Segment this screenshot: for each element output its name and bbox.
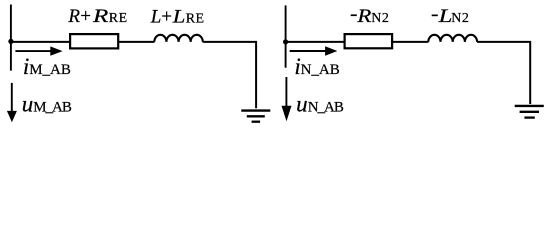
svg-text:N2: N2 (371, 11, 389, 26)
wire: resistor to inductor (right circuit) (392, 41, 428, 43)
current arrow iN_AB (290, 46, 338, 55)
wire: node A to resistor (right circuit) (285, 41, 345, 43)
svg-text:N_AB: N_AB (308, 100, 344, 116)
label uN_AB (296, 92, 344, 117)
svg-text:L: L (150, 6, 162, 27)
svg-text:u: u (22, 92, 34, 117)
wire: left port vertical (node A, right circuit) (285, 5, 287, 67)
svg-text:L: L (172, 6, 186, 27)
label R+RRE (67, 6, 127, 27)
junction dot (right circuit input node) (283, 39, 288, 44)
svg-text:+: + (80, 6, 91, 27)
inductor -LN2 coil (428, 35, 477, 42)
wire: left port vertical (node A, left circuit) (10, 5, 12, 71)
label L+LRE (150, 6, 205, 27)
svg-text:N_AB: N_AB (301, 62, 340, 78)
current arrow iM_AB (15, 46, 62, 55)
ground (left circuit) (241, 111, 270, 122)
svg-text:RE: RE (109, 11, 128, 26)
svg-text:R: R (356, 6, 372, 27)
wire: inductor to ground corner (left circuit) (203, 42, 256, 108)
ground (right circuit) (515, 106, 544, 118)
svg-text:M_AB: M_AB (33, 100, 72, 116)
wire: inductor to ground corner (right circuit) (477, 42, 530, 104)
voltage arrow uN_AB (282, 77, 292, 121)
resistor -RN2 body (345, 34, 393, 48)
svg-text:R: R (92, 6, 109, 27)
inductor L+LRE coil (154, 35, 202, 42)
svg-text:N2: N2 (451, 11, 469, 26)
wire: resistor to inductor (left circuit) (118, 41, 154, 43)
svg-text:L: L (437, 6, 452, 27)
label -RN2 (351, 6, 390, 27)
svg-text:M_AB: M_AB (29, 62, 71, 78)
label -LN2 (432, 6, 470, 27)
label iM_AB (23, 54, 71, 79)
resistor R+RRE body (70, 34, 118, 48)
wire: node A to resistor (left circuit) (10, 41, 70, 43)
svg-text:u: u (296, 92, 308, 117)
svg-text:+: + (161, 6, 172, 27)
junction dot (left circuit input node) (8, 39, 13, 44)
svg-text:RE: RE (186, 11, 205, 26)
svg-text:R: R (67, 6, 80, 27)
label iN_AB (294, 54, 339, 79)
label uM_AB (22, 92, 72, 117)
voltage arrow uM_AB (7, 83, 17, 122)
